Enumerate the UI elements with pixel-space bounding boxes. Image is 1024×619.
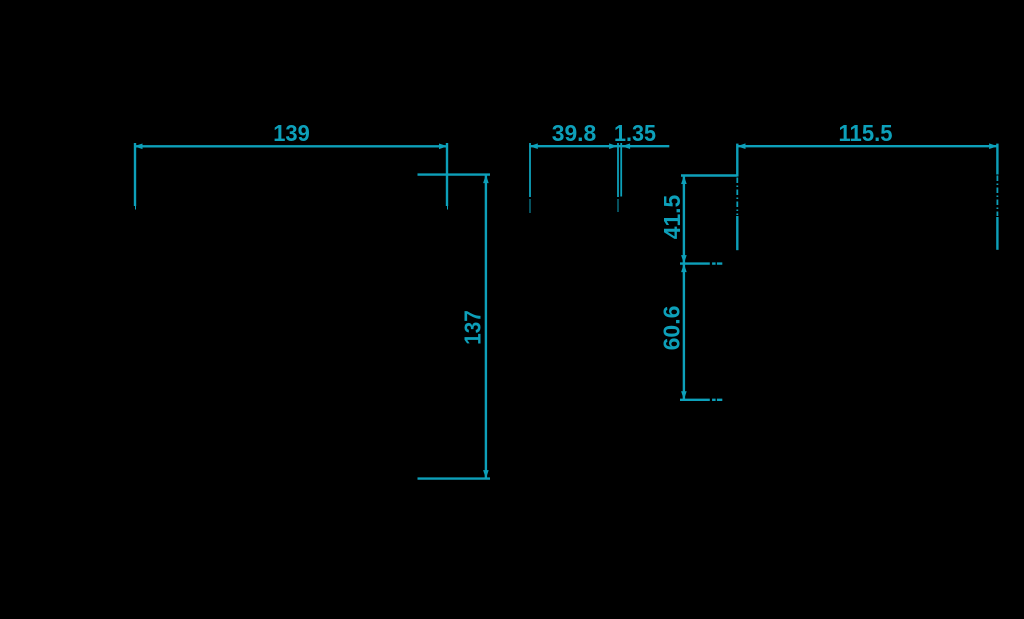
dimension 60.6: bottom extension line with dashes [680, 399, 722, 401]
dimension 60.6: top arrowhead [681, 264, 687, 273]
dimension 115.5: left extension line dash-dot middle [736, 178, 738, 216]
dimension 41.5: top arrowhead [681, 176, 687, 185]
dimension 139: right extension line [446, 143, 448, 206]
dimension 1.35: left extension line [617, 143, 619, 197]
svg-text:60.6: 60.6 [659, 306, 685, 351]
dimension 60.6: dimension line [683, 264, 685, 400]
dimension 60.6: bottom arrowhead [681, 391, 687, 400]
dimension 115.5: left extension line solid top [736, 144, 738, 177]
dimension 39.8/1.35: shared dimension line with leader [529, 145, 669, 147]
dimension 39.8: left extension line [529, 143, 531, 197]
dimension 137: bottom arrowhead [483, 470, 489, 479]
dimension 41.5: bottom arrowhead [681, 255, 687, 264]
dimension 41.5: top extension line [681, 174, 737, 176]
dimension 39.8/1.35: shared middle arrowhead pointing right [609, 143, 618, 149]
dimension 39.8: left extension line thin tail [529, 199, 531, 213]
svg-text:41.5: 41.5 [659, 195, 685, 240]
dimension 1.35: left extension line thin tail [617, 199, 619, 212]
dimension 41.5/60.6: middle extension line with dashes [680, 262, 722, 264]
dimension 1.35: right arrowhead pointing left [622, 143, 631, 149]
svg-text:137: 137 [460, 310, 486, 345]
dimension 1.35: right extension line [620, 143, 622, 197]
dimension 115.5: left arrowhead [737, 143, 746, 149]
svg-text:1.35: 1.35 [614, 120, 656, 146]
dimension 137: top arrowhead [483, 175, 489, 184]
dimension 115.5: right extension line solid bottom [996, 217, 998, 250]
dimension 41.5: dimension line [683, 176, 685, 264]
dimension 137: dimension line [485, 175, 487, 479]
dimension 139: right extension line thin tail [447, 206, 449, 210]
dimension 137: top extension line [418, 173, 491, 175]
dimension 115.5: left extension line solid bottom [736, 216, 738, 250]
dimension 139: left extension line thin tail [135, 206, 137, 210]
svg-text:115.5: 115.5 [839, 120, 893, 146]
dimension 115.5: right arrowhead [989, 143, 998, 149]
dimension 115.5: dimension line [737, 145, 998, 147]
dimension 39.8: left arrowhead [529, 143, 538, 149]
dimension 115.5: right extension line dash-dot middle [996, 176, 998, 217]
dimension 139: left extension line [134, 143, 136, 206]
svg-text:39.8: 39.8 [552, 120, 597, 146]
dimension 139: dimension line [134, 145, 448, 147]
svg-text:139: 139 [273, 120, 310, 146]
dimension 115.5: right extension line solid top [996, 144, 998, 175]
dimension 139: left arrowhead [134, 144, 143, 150]
dimension 137: bottom extension line [418, 477, 491, 479]
dimension 139: right arrowhead [439, 144, 448, 150]
